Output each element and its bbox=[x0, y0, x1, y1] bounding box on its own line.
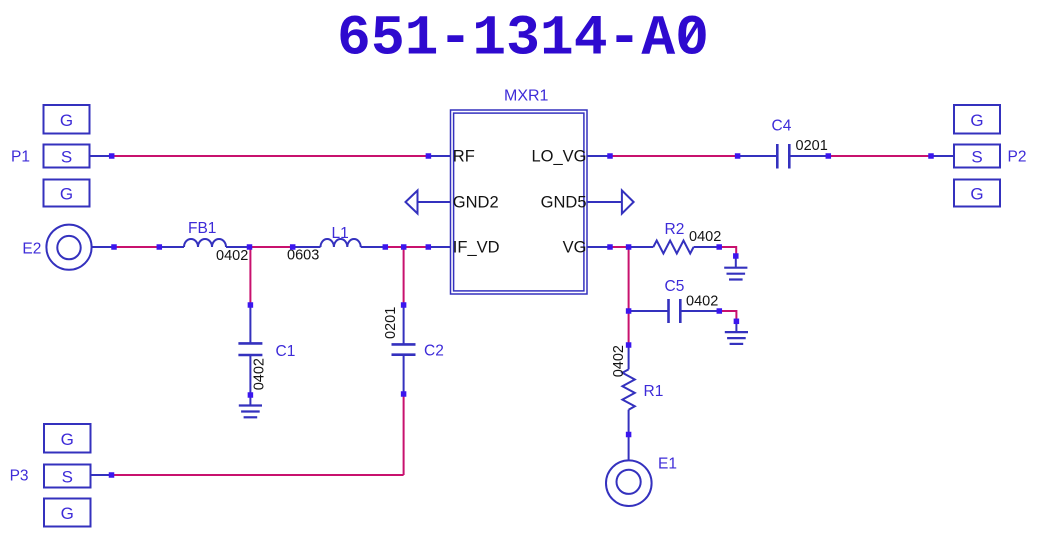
svg-text:0201: 0201 bbox=[383, 307, 399, 339]
schematic title 651-1314-A0 bbox=[337, 8, 709, 72]
junction LO net 1 bbox=[607, 153, 613, 159]
resistor R1 bbox=[622, 369, 634, 409]
wire to ground C1 (blue) bbox=[249, 395, 251, 406]
svg-text:C5: C5 bbox=[665, 278, 685, 295]
junction at P3 bbox=[109, 472, 115, 478]
wire IF net (magenta) 2 bbox=[250, 246, 293, 248]
capacitor C4 bbox=[777, 144, 789, 169]
wire VG branch vertical lower (magenta) bbox=[628, 311, 630, 345]
wire to ground R2 (blue) bbox=[735, 258, 737, 268]
wire IF net (magenta) 4 bbox=[404, 246, 429, 248]
svg-text:IF_VD: IF_VD bbox=[453, 238, 500, 256]
port P3 pin G (bottom) bbox=[44, 499, 91, 527]
wire into C4 (blue) bbox=[738, 155, 778, 157]
wire P1.S to junction (blue) bbox=[90, 155, 113, 157]
ground symbol below C1 bbox=[239, 406, 262, 418]
svg-text:651-1314-A0: 651-1314-A0 bbox=[337, 8, 709, 72]
svg-text:C4: C4 bbox=[772, 118, 792, 135]
svg-text:G: G bbox=[60, 111, 73, 130]
wire junction to P2.S (blue) bbox=[931, 155, 954, 157]
wire to C5 (blue) bbox=[629, 310, 669, 312]
junction on RF net at P1 bbox=[109, 153, 115, 159]
svg-text:P2: P2 bbox=[1008, 149, 1027, 166]
wire FB1 to junction (blue) bbox=[226, 246, 250, 248]
wire C2 branch vertical (magenta) bbox=[403, 247, 405, 305]
op-amp/mixer block MXR1 bbox=[451, 110, 588, 294]
junction LO net 3 bbox=[826, 153, 832, 159]
svg-text:C1: C1 bbox=[276, 343, 296, 360]
svg-text:RF: RF bbox=[453, 148, 475, 166]
junction VG net 1 bbox=[607, 244, 613, 250]
wire into MXR1 IF_VD pin (blue) bbox=[428, 246, 450, 248]
svg-text:S: S bbox=[62, 468, 73, 487]
port P2 pin G (bottom) bbox=[954, 180, 1000, 207]
port P3 pin S bbox=[44, 465, 91, 488]
wire P3 net horizontal (magenta) bbox=[114, 474, 404, 476]
wire MXR1.LO_VG to junction (blue) bbox=[587, 155, 610, 157]
port P1 pin S bbox=[44, 145, 90, 168]
junction below R1 bbox=[626, 432, 632, 438]
svg-text:G: G bbox=[61, 504, 74, 523]
wire IF net (magenta) 3 bbox=[385, 246, 403, 248]
wire C5 to junction (blue) bbox=[680, 310, 719, 312]
capacitor C2 bbox=[392, 344, 416, 354]
junction above C1 bbox=[248, 302, 254, 308]
svg-text:0201: 0201 bbox=[796, 138, 828, 154]
wire C2 to P3 net vertical (magenta) bbox=[403, 394, 405, 475]
wire into C2 (blue) bbox=[403, 305, 405, 344]
off-page portal arrow GND5 (right) bbox=[587, 190, 634, 213]
wire VG branch vertical upper (magenta) bbox=[628, 247, 630, 311]
inductor L1 bbox=[321, 239, 361, 247]
resistor R2 bbox=[653, 241, 693, 254]
svg-text:0603: 0603 bbox=[287, 248, 319, 264]
wire C1 branch vertical (magenta) bbox=[249, 247, 251, 305]
svg-text:VG: VG bbox=[563, 238, 587, 256]
junction IF net at C2 branch bbox=[401, 244, 407, 250]
junction VG net at R2/C5 branch bbox=[626, 244, 632, 250]
port P1 pin G (bottom) bbox=[44, 180, 90, 207]
wire LO net (magenta) 2 bbox=[828, 155, 931, 157]
svg-text:R2: R2 bbox=[665, 221, 685, 238]
junction below C2 bbox=[401, 391, 407, 397]
connector E1 bbox=[606, 460, 652, 506]
svg-text:C2: C2 bbox=[424, 343, 444, 360]
capacitor C5 bbox=[669, 299, 681, 323]
ground symbol below R2 bbox=[724, 268, 747, 280]
wire to L1 (blue) bbox=[293, 246, 321, 248]
svg-text:E2: E2 bbox=[22, 241, 41, 258]
wire junction to P3.S (blue) bbox=[91, 474, 112, 476]
wire into R1 (blue) bbox=[628, 345, 630, 369]
wire into MXR1 RF pin (blue) bbox=[428, 155, 450, 157]
svg-text:0402: 0402 bbox=[689, 229, 721, 245]
ground symbol below C5 bbox=[725, 332, 748, 344]
svg-text:G: G bbox=[60, 185, 73, 204]
wire C2 to junction (blue) bbox=[403, 355, 405, 394]
junction IF net 4 bbox=[383, 244, 389, 250]
junction LO net at P2 bbox=[928, 153, 934, 159]
port P2 pin G (top) bbox=[954, 105, 1000, 134]
capacitor C1 bbox=[238, 343, 262, 355]
svg-text:G: G bbox=[61, 430, 74, 449]
svg-text:P3: P3 bbox=[10, 468, 29, 485]
wire L1 to junction (blue) bbox=[361, 246, 386, 248]
wire MXR1.VG to junction (blue) bbox=[587, 246, 610, 248]
svg-text:S: S bbox=[61, 148, 72, 167]
junction after R2 bbox=[716, 244, 722, 250]
junction above R1 bbox=[626, 342, 632, 348]
svg-text:G: G bbox=[970, 185, 983, 204]
junction at C5 branch bbox=[626, 308, 632, 314]
junction after C5 bbox=[717, 308, 723, 314]
junction IF net 1 bbox=[111, 244, 117, 250]
wire to E1 (blue) bbox=[628, 435, 630, 461]
wire to R2 (blue) bbox=[629, 246, 654, 248]
svg-text:GND5: GND5 bbox=[541, 194, 587, 212]
svg-text:S: S bbox=[971, 148, 982, 167]
junction LO net 2 bbox=[735, 153, 741, 159]
junction IF net at MXR1.IF_VD bbox=[426, 244, 432, 250]
port P3 pin G (top) bbox=[44, 424, 91, 453]
wire R1 to junction (blue) bbox=[628, 410, 630, 435]
wire R2 to ground corner (magenta) bbox=[719, 247, 736, 254]
junction at C5 ground bbox=[734, 319, 740, 325]
svg-text:R1: R1 bbox=[644, 383, 664, 400]
svg-text:0402: 0402 bbox=[686, 294, 718, 310]
ferrite bead FB1 bbox=[184, 239, 226, 247]
svg-text:FB1: FB1 bbox=[188, 220, 216, 237]
wire C1 to ground junction (blue) bbox=[249, 355, 251, 395]
junction IF net at C1 branch bbox=[247, 244, 253, 250]
junction below C1 bbox=[248, 392, 254, 398]
wire IF net (magenta) bbox=[114, 246, 159, 248]
wire C5 to ground corner (magenta) bbox=[719, 311, 736, 319]
wire RF net (magenta) bbox=[114, 155, 429, 157]
off-page portal arrow GND2 (left) bbox=[406, 191, 451, 214]
wire C4 to junction (blue) bbox=[789, 155, 828, 157]
svg-text:0402: 0402 bbox=[252, 358, 268, 390]
wire E2 to junction (blue) bbox=[92, 246, 112, 248]
junction IF net 2 bbox=[157, 244, 163, 250]
svg-text:GND2: GND2 bbox=[453, 194, 499, 212]
wire R2 to junction (blue) bbox=[694, 246, 720, 248]
junction IF net 3 bbox=[290, 244, 296, 250]
wire into C1 (blue) bbox=[249, 305, 251, 343]
wire to FB1 (blue) bbox=[159, 246, 184, 248]
connector E2 bbox=[46, 225, 91, 270]
junction at R2 ground bbox=[733, 253, 739, 259]
svg-text:0402: 0402 bbox=[216, 248, 248, 264]
svg-text:MXR1: MXR1 bbox=[504, 88, 549, 105]
svg-text:E1: E1 bbox=[658, 456, 677, 473]
port P1 pin G (top) bbox=[44, 105, 90, 134]
junction on RF net at MXR1.RF bbox=[426, 153, 432, 159]
svg-text:0402: 0402 bbox=[611, 345, 627, 377]
svg-text:P1: P1 bbox=[11, 149, 30, 166]
svg-text:G: G bbox=[970, 111, 983, 130]
svg-text:LO_VG: LO_VG bbox=[531, 148, 586, 166]
wire to ground C5 (blue) bbox=[735, 323, 737, 332]
wire LO net (magenta) bbox=[610, 155, 738, 157]
wire VG net (magenta) bbox=[610, 246, 629, 248]
svg-text:L1: L1 bbox=[332, 225, 349, 242]
junction above C2 bbox=[401, 302, 407, 308]
port P2 pin S bbox=[954, 145, 1000, 168]
